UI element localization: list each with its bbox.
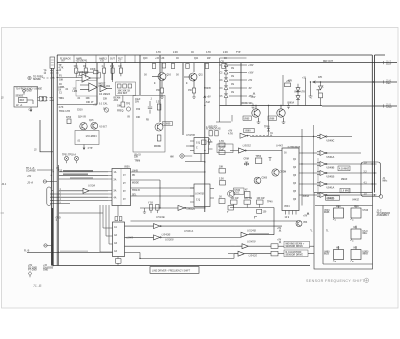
svg-text:47K: 47K <box>318 76 323 79</box>
driver row U5459 <box>231 240 315 249</box>
crystal Y1 <box>244 162 248 166</box>
gate U541D <box>317 193 326 198</box>
svg-text:U050A: U050A <box>302 195 309 198</box>
svg-text:MODE: MODE <box>154 146 161 148</box>
svg-text:LM3: LM3 <box>73 91 78 93</box>
resistor R row2 <box>271 244 278 249</box>
connector TO-arrow <box>28 76 55 79</box>
svg-text:TRIG B: TRIG B <box>132 190 140 192</box>
svg-text:4.19 MHZ: 4.19 MHZ <box>339 167 350 170</box>
label mode freq adj <box>99 84 131 111</box>
wire header ticks <box>74 55 135 63</box>
svg-text:HV: HV <box>62 61 66 63</box>
svg-text:+15V: +15V <box>248 65 254 67</box>
svg-text:TP56: TP56 <box>256 156 262 158</box>
svg-text:1A: 1A <box>114 171 117 174</box>
gate U541C <box>317 182 326 187</box>
svg-text:1/4 LM324: 1/4 LM324 <box>99 93 111 96</box>
transistor Q14 <box>80 123 87 130</box>
ground U565 <box>257 118 261 124</box>
box U560 annotation <box>202 126 273 152</box>
svg-text:-15V: -15V <box>251 97 256 99</box>
svg-text:U540C: U540C <box>327 139 335 142</box>
label SENSOR FREQUENCY SHIFT script <box>306 278 369 283</box>
buffer U5052 <box>230 143 282 153</box>
oscillator cluster <box>234 156 287 198</box>
svg-text:120 1W: 120 1W <box>244 198 253 200</box>
relay U5R5 <box>351 248 370 262</box>
svg-text:C565: C565 <box>262 178 268 180</box>
svg-text:U50A: U50A <box>88 184 95 188</box>
svg-text:4 TP: 4 TP <box>88 147 93 150</box>
svg-text:PT GND: PT GND <box>28 270 37 272</box>
gate U540A <box>317 162 326 167</box>
label TO SENSE text <box>16 77 44 112</box>
wire y252 left <box>24 250 113 253</box>
IC U530 pins <box>108 172 112 201</box>
svg-text:PK: PK <box>132 175 136 177</box>
trimmer cluster right of amps <box>116 82 136 96</box>
wire TP56 drop <box>267 106 273 136</box>
wire out line y82 with arrow <box>313 81 398 83</box>
svg-text:U545B: U545B <box>195 192 204 196</box>
transistor pair lower-left <box>66 116 107 150</box>
label header row texts <box>60 51 241 63</box>
connector ext circle left <box>43 180 57 183</box>
wire vertical x112 <box>111 63 113 80</box>
label amp annotations <box>59 72 89 95</box>
flip-flop U545A <box>190 184 214 207</box>
wire y104 <box>57 98 97 109</box>
svg-text:TP: TP <box>270 134 273 136</box>
regulator cluster right <box>283 75 307 106</box>
svg-text:4.7K: 4.7K <box>206 51 211 54</box>
svg-text:10K 1T: 10K 1T <box>86 102 94 104</box>
svg-text:TYP: TYP <box>236 52 241 54</box>
svg-text:3.2768 MHZ: 3.2768 MHZ <box>288 147 301 149</box>
svg-text:7L-B: 7L-B <box>33 283 42 288</box>
svg-text:FREQ ADJ: FREQ ADJ <box>99 85 111 88</box>
J1 bus header box <box>50 57 55 68</box>
wire ladder taps <box>226 65 247 96</box>
wire gate enclosure <box>317 158 319 196</box>
box U540 label <box>234 188 245 194</box>
svg-text:U565 4.7K: U565 4.7K <box>294 91 305 94</box>
svg-text:SENSOR FREQUENCY SHIFT: SENSOR FREQUENCY SHIFT <box>306 279 365 283</box>
svg-text:C510: C510 <box>77 110 83 112</box>
svg-text:4.7K: 4.7K <box>228 133 233 136</box>
resistor pair at U5020 <box>143 203 159 214</box>
connector P1 left mid <box>47 187 53 206</box>
pot circle left <box>104 108 108 112</box>
svg-text:Q15: Q15 <box>89 120 94 122</box>
wire vertical x313 <box>313 125 315 193</box>
wire vertical x302 <box>301 129 303 206</box>
relay U543A <box>324 206 344 220</box>
svg-text:4.7K: 4.7K <box>156 51 161 54</box>
resistor below U5800 <box>157 135 161 141</box>
svg-text:MODE SEL: MODE SEL <box>241 103 254 105</box>
svg-text:FL-B: FL-B <box>24 250 30 252</box>
svg-text:1K: 1K <box>83 66 86 68</box>
IC U443 pins right <box>299 153 303 195</box>
svg-text:100K: 100K <box>90 69 96 71</box>
svg-text:REF OUT: REF OUT <box>323 61 334 63</box>
wire stub below box <box>83 145 85 150</box>
svg-text:U541A: U541A <box>327 187 335 190</box>
wire vertical x140 <box>139 55 141 95</box>
svg-text:TP51 TP52-A: TP51 TP52-A <box>62 154 76 157</box>
svg-text:LINE DRIVER - FREQUENCY SHIFT: LINE DRIVER - FREQUENCY SHIFT <box>152 270 191 272</box>
label cap row under amps <box>59 98 103 113</box>
transistor Q10 top-mid <box>152 73 166 81</box>
svg-text:U5020: U5020 <box>187 207 196 211</box>
svg-text:+15 LM741: +15 LM741 <box>76 60 88 63</box>
svg-text:+5V: +5V <box>277 228 282 230</box>
svg-text:U565A: U565A <box>287 102 294 105</box>
svg-text:U5052: U5052 <box>243 143 252 147</box>
MAIN-LINES <box>51 55 397 266</box>
ground marks U5020 <box>143 208 157 213</box>
IC U531 register <box>113 217 134 266</box>
bus right pair <box>372 55 374 193</box>
wire bottom rail <box>53 265 310 267</box>
svg-text:2Y: 2Y <box>123 183 126 185</box>
svg-text:FREQ: FREQ <box>117 111 124 113</box>
svg-text:CRM: CRM <box>244 159 249 161</box>
annotation box 4.19MHz <box>338 166 350 193</box>
buffer U540B <box>125 233 171 240</box>
resistor row top-left <box>74 63 123 88</box>
relay U543B <box>351 206 369 220</box>
transistor Q15 <box>91 122 98 129</box>
svg-text:J2-1: J2-1 <box>2 184 7 186</box>
diode CR55 <box>296 88 300 92</box>
box LM324 stage <box>75 131 99 145</box>
svg-text:10K: 10K <box>74 66 79 68</box>
svg-text:MHB: MHB <box>363 254 369 256</box>
transistor U566 <box>268 106 285 124</box>
wire stub below J2 <box>30 107 53 152</box>
resistor tops above U531 <box>115 217 118 221</box>
svg-text:Y 1K: Y 1K <box>148 203 153 205</box>
connector circle bottom-left <box>44 244 53 247</box>
svg-text:TP40: TP40 <box>267 201 273 204</box>
svg-text:22K: 22K <box>110 66 115 68</box>
svg-text:+5V: +5V <box>277 239 282 241</box>
bus left inner <box>58 165 60 266</box>
wire right top stub <box>375 54 386 56</box>
IC U443 pins bottom <box>286 211 297 215</box>
wire vertical x97 <box>96 63 98 105</box>
svg-text:2.2K: 2.2K <box>173 52 178 54</box>
svg-text:1/4 LM324: 1/4 LM324 <box>86 135 98 138</box>
label +5V arrow mid <box>204 88 212 106</box>
resistor R520 <box>157 104 161 110</box>
svg-text:+5V: +5V <box>303 216 308 218</box>
svg-text:2.2K: 2.2K <box>219 179 224 181</box>
op-amp U510B <box>73 83 98 93</box>
svg-text:TP2: TP2 <box>126 104 131 106</box>
svg-text:+5V: +5V <box>27 176 32 178</box>
svg-text:TRIG 4.7R: TRIG 4.7R <box>59 110 70 113</box>
bus pin stubs top <box>44 71 59 76</box>
svg-text:U565: U565 <box>244 118 250 120</box>
connector J1 rounded box <box>361 162 388 197</box>
label +5V arrows driver rows <box>277 228 282 243</box>
svg-text:CR: CR <box>221 61 225 63</box>
wire into U531 left <box>100 205 113 252</box>
svg-text:+5V: +5V <box>207 97 212 99</box>
connector J2 input block <box>14 87 38 108</box>
annotation box 1.0MHz <box>340 188 350 193</box>
wire tp line y170 <box>37 167 63 172</box>
svg-text:S Q: S Q <box>196 143 200 145</box>
testpoint circle mid <box>170 154 192 159</box>
svg-text:10K: 10K <box>136 117 141 119</box>
node circled top right <box>379 195 383 199</box>
gate U541A <box>317 151 326 156</box>
svg-text:1N: 1N <box>231 92 234 94</box>
svg-text:2.2K: 2.2K <box>156 102 161 104</box>
diode CR53 <box>224 86 228 90</box>
driver row U5420 <box>228 250 314 258</box>
diode ladder box <box>220 58 254 106</box>
svg-text:1N: 1N <box>231 76 234 78</box>
resistor R560 <box>255 158 261 164</box>
resistor R57 <box>319 93 323 98</box>
transistor U565 <box>243 106 260 124</box>
junction dots on bus <box>51 77 314 266</box>
svg-text:GND: GND <box>43 270 48 272</box>
svg-text:35V: 35V <box>135 102 140 104</box>
wire dotted TP <box>249 135 273 137</box>
wire dashed pair to bus <box>38 96 54 101</box>
svg-text:1Y: 1Y <box>123 175 126 177</box>
resistor feedback box <box>80 69 101 78</box>
wire input dashes y77.5 <box>53 77 83 78</box>
svg-text:GND: GND <box>27 91 32 93</box>
buffer U544E <box>125 215 283 229</box>
svg-text:Q14 U5: Q14 U5 <box>78 116 87 119</box>
svg-text:HM: HM <box>170 157 174 159</box>
svg-text:+10V: +10V <box>248 73 254 75</box>
transistor CRDN <box>272 169 279 176</box>
transistor Q11 top-mid <box>144 63 203 99</box>
buffer U5020 <box>139 205 205 259</box>
resistor column right of U545B <box>219 131 234 214</box>
node shield diamond <box>22 89 25 95</box>
svg-text:U443: U443 <box>276 144 283 148</box>
op-amp U510A <box>76 71 97 104</box>
svg-text:2.2K: 2.2K <box>223 52 228 54</box>
label TO SENSOR right <box>310 211 390 233</box>
svg-text:SENSOR DRIVE: SENSOR DRIVE <box>286 246 304 248</box>
svg-text:GND: GND <box>386 106 392 109</box>
resistor boxes top-mid <box>152 63 225 69</box>
svg-text:U544E: U544E <box>156 215 165 219</box>
op-amp U511 <box>99 85 112 96</box>
svg-text:1M: 1M <box>118 66 121 68</box>
svg-text:U5 B.T: U5 B.T <box>100 127 108 129</box>
svg-text:Q11: Q11 <box>194 58 199 60</box>
diode CR50 <box>224 63 228 67</box>
svg-text:U50CA: U50CA <box>184 229 193 233</box>
svg-text:U541B: U541B <box>327 176 335 179</box>
ground right <box>309 82 313 99</box>
wire header rule <box>57 62 397 64</box>
svg-text:12 9: 12 9 <box>285 217 290 219</box>
wire out line y106 <box>322 105 397 107</box>
wire gnd feed y213 <box>59 212 103 214</box>
transistor U5800 <box>155 123 163 131</box>
resistor 4700 <box>245 192 251 198</box>
svg-text:4700: 4700 <box>66 116 72 119</box>
svg-text:OSC: OSC <box>235 193 240 195</box>
svg-text:120 1W: 120 1W <box>257 198 266 200</box>
svg-text:U5205: U5205 <box>204 88 211 90</box>
svg-text:120 1W: 120 1W <box>231 198 240 200</box>
resistor right col2 <box>228 206 234 211</box>
svg-text:U545B: U545B <box>186 133 195 137</box>
buffer U50CA <box>161 229 241 241</box>
svg-text:TRIM: TRIM <box>135 161 141 163</box>
svg-text:10K: 10K <box>117 106 122 108</box>
svg-text:10K: 10K <box>59 80 64 82</box>
svg-text:3A: 3A <box>114 190 117 193</box>
wire rows into U530 <box>51 171 108 179</box>
svg-text:U5008: U5008 <box>165 238 174 242</box>
svg-text:1K: 1K <box>176 58 179 60</box>
svg-text:ASSEMBLY: ASSEMBLY <box>377 214 390 217</box>
svg-text:U5420: U5420 <box>249 254 258 258</box>
diode CR56 <box>296 96 300 100</box>
svg-text:+5V: +5V <box>228 131 233 133</box>
svg-text:1K: 1K <box>191 52 194 54</box>
svg-text:1K: 1K <box>176 75 179 77</box>
svg-text:CAL: CAL <box>103 103 108 106</box>
svg-text:OUT: OUT <box>386 63 392 66</box>
label pin numbers bus <box>56 189 62 222</box>
svg-text:10K: 10K <box>219 167 224 169</box>
svg-text:+15 2.2K: +15 2.2K <box>155 58 165 60</box>
wire rows lower into U530 <box>50 194 108 204</box>
svg-text:CRDN: CRDN <box>280 172 287 174</box>
capacitor C520 <box>148 101 152 114</box>
wire vertical x160 <box>159 55 161 122</box>
svg-text:U543: U543 <box>363 209 369 212</box>
svg-text:U54: U54 <box>303 221 308 224</box>
resistor pair small <box>209 131 212 136</box>
IC U530 register <box>108 167 140 217</box>
label margin J2-1 <box>1 98 7 214</box>
svg-text:ADJ: ADJ <box>114 99 119 102</box>
svg-text:SENSE: SENSE <box>16 96 24 98</box>
svg-text:U443Z: U443Z <box>352 199 359 202</box>
svg-text:U530: U530 <box>124 167 130 169</box>
bus left pair <box>51 68 53 266</box>
resistor REF box <box>19 98 28 103</box>
transistor U546 <box>228 190 235 197</box>
label right edge J1-7 <box>318 60 392 109</box>
svg-text:HB: HB <box>336 248 340 250</box>
wire mid rail y105.5 <box>220 81 323 109</box>
wire top rail <box>57 54 372 56</box>
wire y246 from U531 <box>125 245 243 247</box>
sensor assembly outer box <box>314 193 373 270</box>
svg-text:REF: REF <box>20 100 25 102</box>
svg-text:U560: U560 <box>245 131 251 133</box>
svg-text:REF: REF <box>386 82 391 85</box>
svg-text:J1-A: J1-A <box>27 181 33 185</box>
caption box LINE DRIVER <box>150 267 199 274</box>
svg-text:4.7K: 4.7K <box>219 140 224 143</box>
svg-text:ADJ SET: ADJ SET <box>118 92 128 95</box>
resistor 4700 <box>67 119 71 124</box>
svg-text:1K: 1K <box>59 84 62 86</box>
svg-text:MODE: MODE <box>132 183 139 185</box>
svg-text:4Y: 4Y <box>123 198 126 201</box>
box around amp stage <box>76 80 97 96</box>
label bottom-left texts <box>28 265 54 272</box>
svg-text:TRIG: TRIG <box>59 98 65 100</box>
flip-flop U545B <box>185 133 213 162</box>
svg-text:4.7uF: 4.7uF <box>204 101 211 104</box>
annotation box row3 <box>284 250 308 257</box>
label left margin rows <box>58 65 65 92</box>
svg-text:U541A: U541A <box>327 156 335 159</box>
label U5420 box top <box>326 195 383 202</box>
svg-text:C Q: C Q <box>196 200 200 202</box>
svg-text:MHB: MHB <box>324 212 330 214</box>
wire y252 right of U531 <box>125 253 239 259</box>
svg-text:U566: U566 <box>269 118 275 120</box>
svg-text:U510: U510 <box>83 72 89 74</box>
capacitor N/C boxes <box>40 96 43 101</box>
transistor C565 <box>254 177 261 184</box>
bus heavy lower segment <box>51 208 53 266</box>
svg-text:Q10: Q10 <box>167 75 172 77</box>
annotation box row2 <box>284 241 310 248</box>
svg-text:1N: 1N <box>231 84 234 86</box>
svg-text:U5800: U5800 <box>164 124 171 126</box>
svg-text:U524B: U524B <box>247 228 256 232</box>
diode CR57 <box>309 81 323 106</box>
svg-text:22K: 22K <box>134 157 139 159</box>
svg-text:FLYBACK AS: FLYBACK AS <box>206 128 221 131</box>
svg-text:+5V: +5V <box>248 80 253 82</box>
svg-text:47uF: 47uF <box>219 149 225 152</box>
resistor below trimmers <box>104 96 130 119</box>
resistor tops row above drivers <box>230 198 274 218</box>
svg-text:Q10: Q10 <box>143 58 148 60</box>
svg-text:10K: 10K <box>86 98 91 100</box>
label TP info left <box>26 168 36 185</box>
capacitor marks on rail <box>252 104 255 110</box>
svg-text:47K: 47K <box>288 80 293 83</box>
svg-text:HB: HB <box>354 227 358 229</box>
svg-text:MLB: MLB <box>324 254 329 256</box>
wire FL return L <box>40 120 53 152</box>
svg-text:SENSOR DRIVE: SENSOR DRIVE <box>286 255 304 257</box>
wire U530 outputs <box>131 171 206 208</box>
svg-text:TP56: TP56 <box>264 127 270 129</box>
label FL-B script <box>33 283 42 288</box>
wire y221 <box>131 220 299 222</box>
svg-text:Q11: Q11 <box>199 75 204 77</box>
driver row U524B <box>241 208 274 238</box>
resistor 120 mid <box>257 209 262 213</box>
